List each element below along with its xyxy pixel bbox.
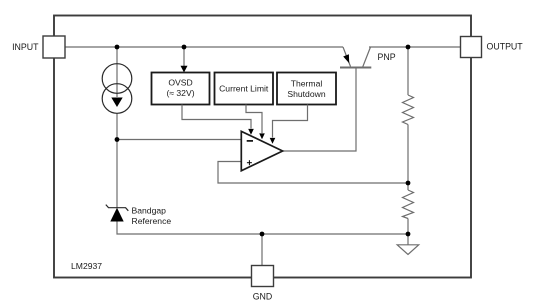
transistor Q1 PNP base bar	[340, 67, 371, 69]
current source I1 circle lower	[102, 84, 132, 114]
svg-text:LM2937: LM2937	[71, 261, 102, 271]
transistor Q1 collector lead	[363, 47, 371, 68]
transistor Q1 emitter lead	[343, 47, 351, 67]
wire: op-amp + input feedback from divider	[218, 162, 408, 184]
OVSD block U2	[152, 73, 210, 105]
GND pin box	[252, 266, 274, 287]
junction dot divider tap	[406, 181, 411, 186]
svg-text:OUTPUT: OUTPUT	[487, 42, 524, 52]
zener diode D1 anode triangle	[110, 208, 123, 222]
junction dot ground rail / R2 bottom	[406, 232, 411, 237]
resistor R1 zigzag	[403, 95, 414, 125]
arrowhead OVSD to op-amp	[248, 129, 254, 135]
resistor R2 top lead	[407, 183, 409, 190]
current source arrow	[111, 98, 122, 108]
wire: collector rail to OUTPUT pin	[369, 46, 461, 48]
wire: GND pin stem	[261, 234, 263, 266]
wire: zener anode down and ground rail right	[117, 222, 408, 235]
svg-text:Thermal: Thermal	[291, 79, 323, 89]
svg-text:Current Limit: Current Limit	[219, 84, 269, 94]
arrowhead Thermal Shutdown to op-amp	[270, 138, 276, 144]
wire: Current Limit output to op-amp	[246, 105, 262, 134]
junction dot node A	[115, 137, 120, 142]
wire: Thermal Shutdown output to op-amp	[273, 105, 308, 138]
wire: current source stem	[116, 47, 118, 97]
svg-text:(≈ 32V): (≈ 32V)	[166, 88, 194, 98]
wire: OVSD output to op-amp	[182, 105, 251, 129]
OUTPUT pin box	[461, 37, 482, 58]
junction dot input/current source	[115, 45, 120, 50]
current source I1 circle upper	[102, 64, 132, 94]
resistor R1 bottom lead	[407, 125, 409, 184]
svg-text:Shutdown: Shutdown	[287, 89, 325, 99]
junction dot input/OVSD tap	[182, 45, 187, 50]
INPUT pin box	[43, 36, 65, 58]
arrowhead into OVSD top	[181, 66, 188, 73]
resistor R1 top lead	[407, 47, 409, 95]
arrowhead Current Limit to op-amp	[259, 133, 265, 139]
svg-text:PNP: PNP	[378, 52, 396, 62]
op-amp minus sign	[247, 140, 253, 142]
svg-text:GND: GND	[253, 292, 273, 302]
svg-text:OVSD: OVSD	[168, 78, 192, 88]
junction dot output/divider top	[406, 45, 411, 50]
resistor R2 bottom lead	[407, 219, 409, 245]
ground symbol	[397, 245, 419, 255]
op-amp U1 triangle	[241, 131, 282, 171]
junction dot ground rail / GND pin	[260, 232, 265, 237]
op-amp plus sign	[247, 162, 252, 164]
zener diode D1 bandgap reference: cathode bar	[106, 205, 129, 211]
Current Limit block U3	[215, 73, 274, 105]
svg-text:INPUT: INPUT	[12, 42, 39, 52]
IC boundary rectangle	[54, 16, 471, 278]
svg-text:Reference: Reference	[132, 216, 172, 226]
Thermal Shutdown block U4	[277, 73, 336, 105]
wire: op-amp output to PNP base	[283, 68, 356, 152]
transistor Q1 emitter arrowhead	[343, 54, 349, 63]
wire: node A to op-amp inverting input	[117, 139, 241, 141]
wire: node A down to bandgap zener	[116, 140, 118, 208]
svg-text:Bandgap: Bandgap	[132, 206, 167, 216]
wire: input rail from INPUT pin to PNP emitter	[65, 46, 343, 48]
wire: tap down into OVSD block	[183, 47, 185, 67]
resistor R2 zigzag	[403, 190, 414, 219]
